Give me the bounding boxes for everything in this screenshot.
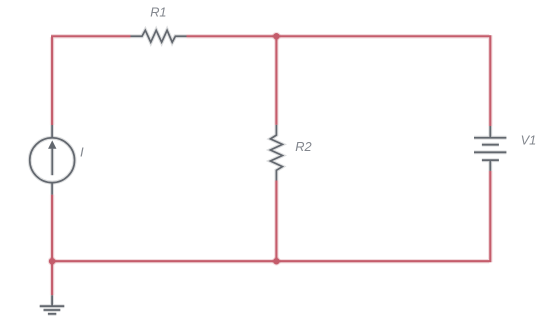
svg-text:I: I xyxy=(80,144,84,159)
resistor R1 xyxy=(131,30,187,42)
wire bottom rail from ground node to V1 bottom terminal xyxy=(52,171,490,262)
wire stub from ground node down to ground symbol xyxy=(50,261,54,295)
wire from node A down to R2 top terminal xyxy=(274,36,278,125)
svg-text:V1: V1 xyxy=(521,133,537,148)
wire from current source bottom to ground node xyxy=(50,195,54,262)
ground node junction dot xyxy=(48,257,57,266)
ground xyxy=(40,295,65,314)
bottom middle node junction dot xyxy=(272,257,281,266)
svg-text:R1: R1 xyxy=(150,4,166,19)
wire from R1 right terminal to node A xyxy=(187,34,277,38)
node A junction dot xyxy=(272,32,281,41)
svg-text:R2: R2 xyxy=(295,139,311,154)
wire from R2 bottom terminal to bottom rail xyxy=(274,181,278,262)
current source I xyxy=(30,125,75,195)
wire from current source top to R1 left terminal xyxy=(51,36,130,125)
resistor R2 xyxy=(270,125,282,181)
wire from node A to V1 top terminal xyxy=(276,35,490,126)
voltage source V1 battery xyxy=(474,126,506,171)
